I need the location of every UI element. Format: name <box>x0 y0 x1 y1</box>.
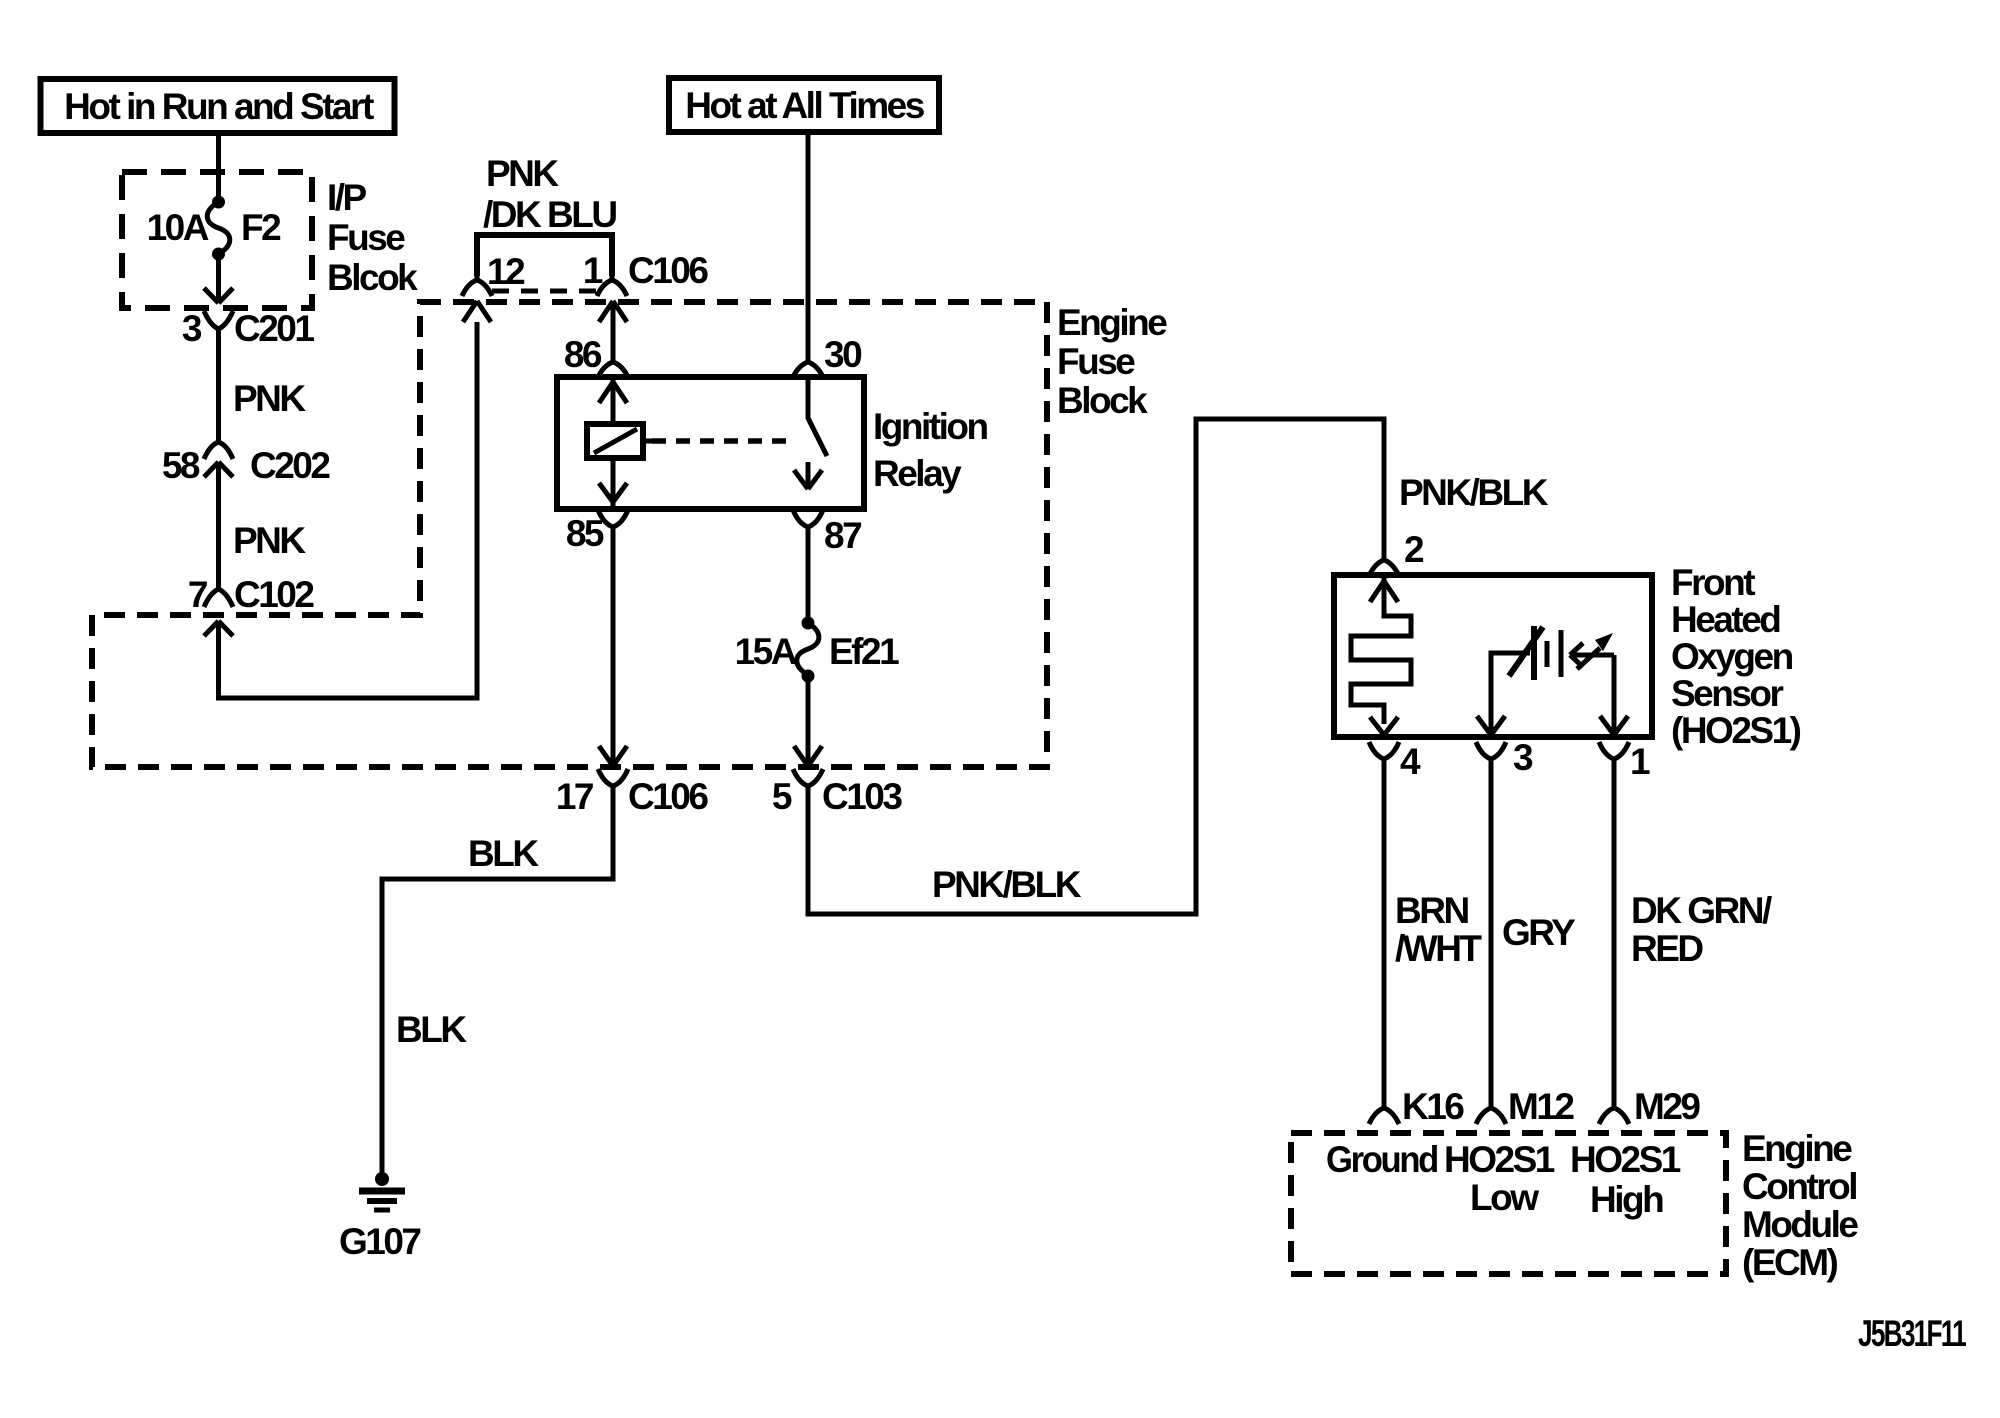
wire color label PNK/BLK (horizontal run) <box>932 864 1082 905</box>
svg-text:10A: 10A <box>147 207 209 248</box>
wire color label PNK/BLK (vertical run) <box>1399 472 1549 513</box>
relay pin 85 female symbol <box>598 510 628 536</box>
svg-text:Hot in Run and Start: Hot in Run and Start <box>64 86 374 127</box>
fuse F2 value label 10A <box>147 207 209 248</box>
svg-text:BLK: BLK <box>396 1009 467 1050</box>
svg-text:G107: G107 <box>339 1221 420 1262</box>
svg-text:C106: C106 <box>628 250 708 291</box>
svg-text:30: 30 <box>824 334 862 375</box>
svg-text:J5B31F11: J5B31F11 <box>1858 1313 1966 1354</box>
connector C106 name <box>628 250 708 291</box>
svg-text:(HO2S1): (HO2S1) <box>1671 710 1801 751</box>
connector C202 pin 58 (female symbol) <box>204 434 233 459</box>
wire: sensor pin 4 to ECM K16, BRN/WHT <box>1382 765 1387 1102</box>
fuse Ef21 15A <box>797 617 819 683</box>
connector C202 pin number 58 <box>162 445 200 486</box>
drawing reference number J5B31F11 <box>1858 1313 1966 1354</box>
front heated oxygen sensor HO2S1 box <box>1334 575 1652 737</box>
svg-text:Fuse: Fuse <box>327 217 405 258</box>
svg-text:1: 1 <box>583 250 603 291</box>
connector C103 pin number 5 <box>772 776 792 817</box>
relay coil wire from pin 86 with arrow <box>599 378 627 424</box>
connector C102 pin number 7 <box>188 574 207 615</box>
connector C106 pin 12 female symbol <box>462 270 492 296</box>
wire color label PNK <box>233 520 306 561</box>
wire color label GRY <box>1502 912 1576 953</box>
relay pin 85 number <box>566 513 604 554</box>
ECM terminal M12 female symbol <box>1476 1098 1506 1124</box>
relay switch output arrow to pin 87 <box>794 462 822 489</box>
sensor pin number 3 <box>1513 737 1533 778</box>
relay pin 87 number <box>824 515 861 556</box>
ECM terminal M29 female symbol <box>1599 1098 1629 1124</box>
sensor pin number 1 <box>1630 741 1650 782</box>
connector C106 name (lower) <box>628 776 708 817</box>
svg-text:GRY: GRY <box>1502 912 1576 953</box>
svg-text:Engine: Engine <box>1742 1128 1852 1169</box>
wire: fuse F2 to connector C201, arrow down <box>204 254 233 303</box>
wire color label DK GRN/RED <box>1631 890 1772 969</box>
svg-text:Fuse: Fuse <box>1057 341 1135 382</box>
svg-text:7: 7 <box>188 574 207 615</box>
ground G107 symbol <box>359 1172 405 1210</box>
sensor pin number 4 <box>1400 741 1421 782</box>
heater element (resistor) inside sensor, pin 2 to pin 4 <box>1351 578 1411 735</box>
svg-text:/WHT: /WHT <box>1395 928 1482 969</box>
svg-text:Ignition: Ignition <box>873 406 987 447</box>
svg-text:Relay: Relay <box>873 453 962 494</box>
ECM terminal function label HO2S1 High <box>1570 1139 1681 1220</box>
relay coil box <box>587 424 652 458</box>
relay pin 87 female symbol <box>793 510 823 536</box>
svg-text:(ECM): (ECM) <box>1742 1242 1838 1283</box>
svg-text:2: 2 <box>1404 529 1424 570</box>
connector C103 pin 5 female symbol <box>793 769 823 795</box>
svg-text:M29: M29 <box>1634 1086 1700 1127</box>
wire: relay pin 87 down to fuse Ef21 <box>806 533 811 623</box>
svg-text:1: 1 <box>1630 741 1650 782</box>
svg-text:BRN: BRN <box>1395 890 1468 931</box>
connector C102 name <box>234 574 314 615</box>
relay switch blade from pin 30 <box>808 377 827 456</box>
ECM terminal function label Ground <box>1326 1139 1438 1180</box>
wire: C102 down, right and up to C106 pin 12 <box>219 322 478 698</box>
wire color label PNK <box>233 378 306 419</box>
svg-text:PNK/BLK: PNK/BLK <box>1399 472 1549 513</box>
power source label: Hot in Run and Start <box>41 79 395 133</box>
svg-text:Block: Block <box>1057 380 1148 421</box>
svg-text:HO2S1: HO2S1 <box>1444 1139 1555 1180</box>
connector C106 bracket (pins 12 and 1) <box>477 235 612 291</box>
engine control module label <box>1742 1128 1858 1283</box>
relay pin 30 female symbol <box>793 352 823 377</box>
wire: C106 pin 17 down, left, down to ground G107, BLK <box>382 793 613 1176</box>
wire color label BLK (vertical run) <box>396 1009 467 1050</box>
svg-text:I/P: I/P <box>327 177 367 218</box>
svg-text:85: 85 <box>566 513 604 554</box>
svg-text:Front: Front <box>1671 562 1755 603</box>
wire: C103 pin 5 down, right, up to oxygen sensor pin 2, PNK/BLK <box>808 419 1384 914</box>
engine control module ECM dashed box <box>1291 1133 1726 1274</box>
ECM terminal K16 female symbol <box>1369 1098 1399 1124</box>
svg-text:3: 3 <box>182 308 202 349</box>
sensor pin 4 female symbol <box>1369 742 1399 767</box>
ignition relay label <box>873 406 987 494</box>
ECM terminal M12 label <box>1508 1086 1574 1127</box>
wire: C106 pin 1 down to relay pin 86, arrow <box>599 301 627 358</box>
Engine Fuse Block dashed outline <box>92 302 1047 767</box>
svg-text:3: 3 <box>1513 737 1533 778</box>
wire color label BRN/WHT <box>1395 890 1482 969</box>
svg-text:17: 17 <box>556 776 593 817</box>
connector C103 name <box>822 776 902 817</box>
svg-text:K16: K16 <box>1402 1086 1464 1127</box>
wire: C201 to C202, PNK <box>216 338 221 440</box>
fuse F2 name label F2 <box>241 207 281 248</box>
svg-text:Ef21: Ef21 <box>829 631 899 672</box>
connector C201 pin 3 (female symbol) <box>204 311 233 340</box>
svg-text:HO2S1: HO2S1 <box>1570 1139 1681 1180</box>
svg-text:C106: C106 <box>628 776 708 817</box>
I/P fuse block dashed box <box>122 172 312 308</box>
wire color label BLK (horizontal run) <box>468 833 539 874</box>
svg-text:5: 5 <box>772 776 792 817</box>
svg-text:PNK/BLK: PNK/BLK <box>932 864 1082 905</box>
arrow into C202 <box>204 462 233 477</box>
svg-text:87: 87 <box>824 515 861 556</box>
wire: fuse Ef21 to connector C103 pin 5, arrow <box>794 676 822 766</box>
svg-text:C202: C202 <box>250 445 330 486</box>
sensor pin 3 female symbol <box>1476 742 1506 767</box>
arrow into C102 <box>204 621 233 636</box>
svg-text:M12: M12 <box>1508 1086 1574 1127</box>
sensor pin number 2 <box>1404 529 1424 570</box>
svg-text:4: 4 <box>1400 741 1421 782</box>
wire: Hot at All Times down to relay pin 30 <box>806 135 811 358</box>
sensor pin 2 female symbol <box>1369 552 1399 576</box>
svg-text:PNK: PNK <box>233 378 306 419</box>
relay pin 86 number <box>564 334 602 375</box>
relay pin 86 female symbol <box>598 352 628 377</box>
sensor pin 1 female symbol <box>1599 742 1629 767</box>
connector C106 pin 17 female symbol <box>598 769 628 795</box>
svg-text:Sensor: Sensor <box>1671 673 1784 714</box>
ECM terminal K16 label <box>1402 1086 1464 1127</box>
svg-text:Ground: Ground <box>1326 1139 1438 1180</box>
svg-text:Low: Low <box>1470 1177 1539 1218</box>
svg-text:/DK BLU: /DK BLU <box>483 194 616 235</box>
wire: sensor pin 1 to ECM M29, DK GRN/RED <box>1612 765 1617 1102</box>
fuse Ef21 name label <box>829 631 899 672</box>
fuse Ef21 value label 15A <box>735 631 797 672</box>
relay coil to pin 85 wire with arrow <box>599 458 627 506</box>
wire: sensor pin 3 to ECM M12, GRY <box>1489 765 1494 1102</box>
svg-text:15A: 15A <box>735 631 797 672</box>
connector C106 pin number 1 <box>583 250 603 291</box>
svg-text:DK GRN/: DK GRN/ <box>1631 890 1772 931</box>
connector C106 pin number 17 <box>556 776 593 817</box>
svg-text:PNK: PNK <box>486 153 559 194</box>
connector C106 pin number 12 <box>487 251 525 292</box>
ignition relay box <box>557 377 864 509</box>
connector C106 pin 1 female symbol <box>597 270 627 296</box>
svg-text:12: 12 <box>487 251 525 292</box>
relay pin 30 number <box>824 334 862 375</box>
svg-text:Engine: Engine <box>1057 302 1167 343</box>
wire: relay pin 85 down to connector C106 pin 17, arrow <box>599 533 627 766</box>
svg-text:PNK: PNK <box>233 520 306 561</box>
ground name G107 <box>339 1221 420 1262</box>
connector C202 name <box>250 445 330 486</box>
power source label: Hot at All Times <box>669 78 939 132</box>
I/P fuse block label <box>327 177 418 298</box>
Engine Fuse Block label <box>1057 302 1167 421</box>
front heated oxygen sensor label <box>1671 562 1801 751</box>
svg-text:C102: C102 <box>234 574 314 615</box>
svg-text:F2: F2 <box>241 207 281 248</box>
ECM terminal function label HO2S1 Low <box>1444 1139 1555 1218</box>
svg-text:Module: Module <box>1742 1204 1858 1245</box>
relay coil to switch dashed link <box>652 438 796 444</box>
wire: Hot in Run and Start to fuse F2 <box>216 136 221 201</box>
svg-text:Blcok: Blcok <box>327 257 418 298</box>
wire: C202 to C102, PNK <box>216 462 221 582</box>
fuse F2 10A <box>207 196 230 261</box>
connector C201 name <box>234 308 314 349</box>
svg-text:Heated: Heated <box>1671 599 1780 640</box>
svg-text:Oxygen: Oxygen <box>1671 636 1793 677</box>
wire color label PNK /DK BLU <box>483 153 616 235</box>
arrow into C106 pin 12 <box>463 301 491 322</box>
svg-text:High: High <box>1590 1179 1663 1220</box>
svg-text:RED: RED <box>1631 928 1703 969</box>
svg-text:86: 86 <box>564 334 602 375</box>
sensor cell element inside sensor, pins 3 and 1 <box>1477 626 1628 735</box>
svg-text:BLK: BLK <box>468 833 539 874</box>
svg-text:C103: C103 <box>822 776 902 817</box>
svg-text:Control: Control <box>1742 1166 1856 1207</box>
connector C201 pin number 3 <box>182 308 202 349</box>
ECM terminal M29 label <box>1634 1086 1700 1127</box>
svg-text:58: 58 <box>162 445 200 486</box>
connector C102 pin 7 (female symbol) <box>204 582 233 607</box>
svg-text:C201: C201 <box>234 308 314 349</box>
svg-text:Hot at All Times: Hot at All Times <box>685 85 924 126</box>
